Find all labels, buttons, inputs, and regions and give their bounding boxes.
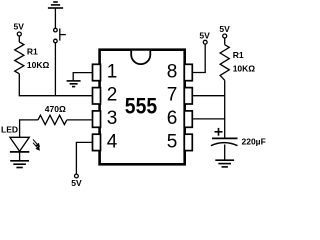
svg-text:R1: R1 [27, 46, 38, 56]
svg-text:2: 2 [107, 85, 118, 106]
wire 470Ω to pin 3 [67, 119, 93, 121]
svg-text:5: 5 [167, 131, 178, 152]
capacitor C1 [211, 138, 238, 145]
svg-text:R1: R1 [233, 50, 244, 60]
pin 5 box [184, 134, 192, 150]
wire pin 4 to 5V (bottom) [76, 142, 92, 174]
wire LED cathode to ground [19, 152, 21, 160]
svg-text:8: 8 [167, 61, 178, 82]
pin 8 box [184, 64, 192, 80]
wire switch to trigger node [54, 43, 56, 96]
wire R1 bottom down to trigger node [19, 74, 92, 96]
svg-text:5V: 5V [199, 30, 210, 40]
wire LED anode up to 470Ω [20, 120, 38, 137]
pin 6 box [184, 111, 192, 127]
svg-text:LED: LED [1, 125, 18, 135]
wire R1 bottom to capacitor [224, 80, 226, 137]
5V terminal circle (right R1) [223, 34, 227, 38]
pin 2 box [93, 88, 101, 104]
resistor 470Ω (horizontal) [38, 115, 67, 124]
svg-text:6: 6 [167, 108, 178, 129]
resistor R1 (left, vertical) [15, 42, 24, 74]
ground (LED) [10, 161, 29, 168]
5V terminal circle (pin 8) [203, 40, 207, 44]
wire pin 7 to bus [192, 95, 224, 97]
svg-text:220µF: 220µF [242, 137, 266, 147]
plus sign (capacitor polarity) [215, 128, 223, 136]
5V terminal circle (bottom) [75, 174, 79, 178]
wire 5V to R1 top (right) [224, 38, 226, 45]
svg-text:10KΩ: 10KΩ [27, 60, 50, 70]
ground (pin 1) [67, 81, 81, 87]
pushbutton switch S1 [54, 28, 66, 42]
wire pin 8 to 5V (top right) [192, 44, 205, 72]
wire pin1 to ground [73, 73, 92, 81]
ground (inverted, above pushbutton) [48, 2, 63, 8]
svg-text:4: 4 [107, 131, 118, 152]
svg-text:5V: 5V [13, 21, 24, 31]
wire pin 6 to bus [192, 118, 224, 120]
resistor R1 (right, vertical) [220, 45, 229, 81]
pin 1 box [93, 64, 101, 80]
svg-text:555: 555 [125, 94, 157, 118]
svg-text:1: 1 [107, 61, 118, 82]
svg-text:3: 3 [107, 108, 118, 129]
svg-text:5V: 5V [71, 178, 82, 188]
pin 7 box [184, 88, 192, 104]
wire 5V to R1 top [18, 36, 20, 42]
wire capacitor to ground [224, 145, 226, 160]
LED D1 [10, 137, 29, 152]
svg-text:7: 7 [167, 85, 178, 106]
svg-text:10KΩ: 10KΩ [233, 63, 256, 73]
pin 4 box [93, 134, 101, 150]
pin 3 box [93, 111, 101, 127]
svg-text:470Ω: 470Ω [45, 104, 66, 114]
wire ground to switch [54, 8, 56, 28]
ground (capacitor) [215, 160, 234, 167]
svg-text:5V: 5V [219, 24, 230, 34]
notch (pin1 marker) [131, 51, 150, 64]
5V terminal circle (left) [17, 32, 21, 36]
LED arrows [33, 139, 39, 150]
op IC U1 555 body [100, 50, 185, 165]
